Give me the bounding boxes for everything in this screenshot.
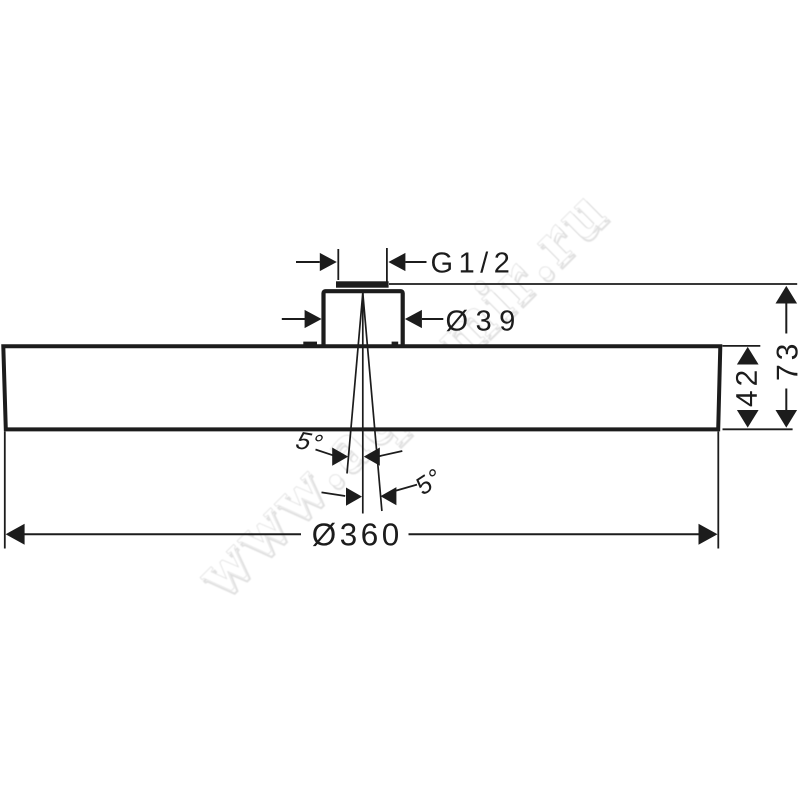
dimension D360: right line [409,533,700,535]
dimension D39: right arrow [405,310,422,328]
extension line from thread top (73 dim) [389,283,797,285]
dimension D360: right extension line [717,432,719,549]
angle dim lower: left tail [322,492,346,496]
extension line from plate bottom [723,428,793,430]
watermark [190,186,616,609]
angle dim upper: right tail [379,451,402,456]
dimension G1/2: right arrow [388,253,405,271]
spray line left 5deg [347,293,363,474]
angle dim upper: label 5deg [295,432,324,453]
dimension G1/2: right tail [405,261,426,263]
watermark shadow [193,190,619,613]
angle dim lower: right leader [396,485,417,491]
right bump on plate top [392,342,399,348]
connector body (G1/2 union) [324,291,403,348]
label D39 [447,310,514,332]
dimension 42: top arrow [737,347,759,365]
dimension D39: right tail [422,318,443,320]
dimension D39: left tail [282,318,305,320]
label D360 [313,523,398,546]
shower plate disc (side view) [3,346,720,429]
label 73 [777,345,798,380]
extension line from plate top (42 dim) [723,345,761,347]
dimension 73: top arrow [776,286,798,304]
dimension 73: upper shaft [785,303,787,334]
left bump on plate top [303,342,317,348]
dimension 42: bottom arrow [737,410,759,428]
dimension D360: right arrow [699,524,718,545]
angle dim upper: left-pointing arrow [364,448,380,466]
angle dim upper: right-pointing arrow [332,448,348,466]
dimension D360: left line [24,533,301,535]
angle dim lower: left-pointing arrow [380,487,396,505]
dimension 73: lower shaft [785,389,787,411]
label 42 [736,371,757,406]
spray line right 5deg [363,293,382,511]
angle dim lower: right-pointing arrow [346,488,362,506]
dimension G1/2: right extension line [386,248,388,283]
label G1/2 [432,252,508,273]
dimension D360: left extension line [4,432,6,549]
dimension G1/2: left extension line [337,249,339,280]
dimension D360: left arrow [6,524,25,545]
dimension G1/2: left arrow [320,253,337,271]
thread cap on connector [336,281,389,287]
spray centre line [362,293,364,514]
dimension D39: left arrow [305,310,322,328]
dimension 73: bottom arrow [776,410,798,428]
angle dim lower: label 5deg [415,468,442,496]
angle dim upper: leader [316,450,334,456]
dimension G1/2: left tail [296,261,320,263]
